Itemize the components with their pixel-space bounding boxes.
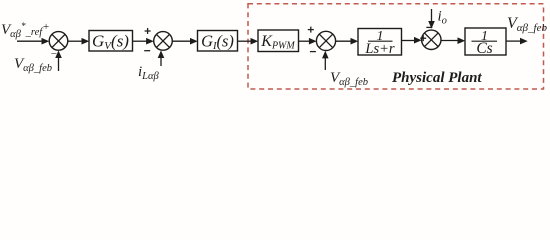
wire input to summing junction S1	[17, 38, 49, 45]
block 1/(Ls+r) filter inductor	[358, 29, 402, 58]
svg-text:Vαβ*_ref+: Vαβ*_ref+	[1, 21, 50, 40]
block 1/Cs filter capacitor	[465, 28, 506, 57]
svg-text:Ls+r: Ls+r	[364, 41, 394, 57]
block GV(s) voltage controller	[89, 31, 133, 53]
label iLαβ	[138, 64, 160, 82]
summing junction S4	[422, 30, 441, 49]
svg-text:Vαβ_feb−: Vαβ_feb−	[14, 48, 57, 74]
output wire Vαβ_feb	[506, 38, 528, 45]
wire L block to summing junction S4	[402, 37, 422, 44]
dashed box Physical Plant boundary	[248, 4, 544, 89]
sign − at S2	[144, 50, 150, 52]
svg-text:Physical Plant: Physical Plant	[392, 70, 482, 86]
svg-text:iLαβ: iLαβ	[138, 64, 160, 82]
label Vαβ*_ref (reference input)	[1, 21, 50, 40]
block KPWM inverter gain	[258, 30, 299, 52]
sign + at S2	[145, 28, 151, 34]
label Vαβ_feb (into S3)	[330, 70, 368, 88]
block GI(s) current controller	[198, 31, 238, 53]
wire GI to block KPWM (crosses dashed boundary)	[238, 38, 259, 45]
sign − at S3	[310, 51, 316, 53]
svg-text:GV(s): GV(s)	[92, 32, 129, 53]
svg-text:io: io	[438, 9, 447, 27]
label io	[438, 9, 447, 27]
wire Vαβ_feb feedback into S1 (vertical arrow)	[55, 50, 62, 71]
summing junction S2	[154, 32, 173, 51]
wire GV to summing junction S2	[133, 38, 154, 45]
output label Vαβ_feb	[507, 15, 547, 34]
label Physical Plant	[392, 70, 482, 86]
summing junction S3	[316, 31, 335, 50]
sign + at S4	[420, 35, 426, 41]
svg-text:KPWM: KPWM	[260, 33, 295, 52]
wire S3 to block 1/(Ls+r)	[336, 38, 359, 45]
svg-text:GI(s): GI(s)	[201, 32, 234, 53]
wire io into S4 (vertical arrow from top)	[428, 9, 435, 29]
sign − at S4	[426, 26, 432, 28]
wire S2 to block GI	[172, 38, 197, 45]
label Vαβ_feb with minus sign (feedback into S1)	[14, 48, 57, 74]
sign + at S3	[308, 27, 314, 33]
wire KPWM to summing junction S3	[299, 38, 317, 45]
svg-text:Vαβ_feb: Vαβ_feb	[330, 70, 368, 88]
wire iLαβ into S2 (vertical arrow)	[158, 50, 165, 66]
svg-text:Cs: Cs	[476, 40, 492, 57]
svg-text:Vαβ_feb: Vαβ_feb	[507, 15, 547, 34]
wire Vαβ_feb into S3 (vertical arrow)	[322, 51, 329, 70]
wire S1 to block GV	[68, 38, 89, 45]
wire S4 to block 1/Cs	[441, 37, 465, 44]
summing junction S1	[49, 32, 68, 51]
